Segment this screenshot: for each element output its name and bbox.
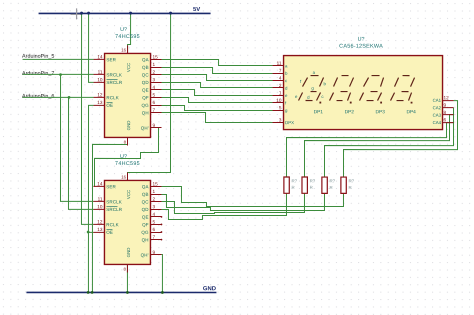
svg-text:2: 2: [152, 197, 155, 202]
svg-text:6: 6: [444, 117, 447, 122]
svg-text:SRCLK: SRCLK: [106, 72, 122, 77]
svg-text:12: 12: [97, 219, 103, 224]
svg-text:CA56-12SEKWA: CA56-12SEKWA: [339, 44, 383, 50]
svg-text:DPX: DPX: [285, 120, 294, 125]
svg-text:U?: U?: [120, 27, 127, 33]
svg-text:7: 7: [153, 108, 156, 113]
svg-text:5V: 5V: [193, 7, 200, 13]
svg-text:5: 5: [152, 219, 155, 224]
svg-text:CA3: CA3: [433, 113, 442, 118]
svg-text:DP1: DP1: [314, 109, 324, 115]
svg-text:4: 4: [153, 85, 156, 90]
svg-text:11: 11: [277, 61, 282, 66]
svg-text:7: 7: [152, 235, 155, 240]
svg-text:10: 10: [97, 204, 103, 209]
svg-text:2: 2: [279, 83, 282, 88]
svg-text:15: 15: [152, 181, 158, 186]
svg-text:GND: GND: [126, 121, 131, 131]
svg-text:GND: GND: [126, 248, 131, 258]
svg-text:5: 5: [279, 105, 282, 110]
svg-text:9: 9: [444, 103, 447, 108]
svg-text:QC: QC: [142, 72, 150, 77]
svg-text:VCC: VCC: [126, 190, 131, 199]
svg-text:1: 1: [153, 62, 156, 67]
svg-text:QH: QH: [142, 110, 149, 115]
svg-text:3: 3: [153, 77, 156, 82]
svg-text:R: R: [310, 185, 313, 190]
svg-text:1: 1: [152, 189, 155, 194]
svg-text:SRCLK: SRCLK: [106, 199, 122, 204]
svg-text:QA: QA: [142, 184, 149, 189]
svg-text:11: 11: [98, 197, 103, 202]
svg-text:CA2: CA2: [433, 105, 442, 110]
svg-text:QF: QF: [142, 222, 149, 227]
svg-text:QF: QF: [142, 95, 149, 100]
svg-text:QD: QD: [142, 207, 150, 212]
svg-text:QE: QE: [142, 88, 149, 93]
svg-text:RCLK: RCLK: [106, 95, 118, 100]
svg-text:CA1: CA1: [433, 98, 442, 103]
svg-text:3: 3: [152, 204, 155, 209]
svg-text:11: 11: [98, 70, 103, 75]
svg-text:QE: QE: [142, 215, 149, 220]
svg-text:74HC595: 74HC595: [115, 34, 140, 40]
svg-text:SRCLR: SRCLR: [106, 207, 122, 212]
svg-text:QB: QB: [142, 192, 149, 197]
svg-text:14: 14: [97, 54, 103, 59]
svg-text:DP4: DP4: [406, 109, 416, 115]
svg-text:U?: U?: [358, 37, 365, 43]
svg-text:VCC: VCC: [126, 63, 131, 72]
svg-text:QH': QH': [141, 126, 149, 131]
svg-text:QH: QH: [142, 237, 149, 242]
svg-text:QD: QD: [142, 80, 150, 85]
svg-text:U?: U?: [120, 154, 127, 160]
svg-text:QH': QH': [141, 253, 149, 258]
svg-text:R?: R?: [310, 178, 316, 183]
svg-text:16: 16: [121, 174, 126, 179]
svg-text:10: 10: [276, 98, 282, 103]
svg-text:QA: QA: [142, 57, 149, 62]
svg-text:6: 6: [153, 100, 156, 105]
svg-text:R?: R?: [291, 178, 297, 183]
svg-text:ArduinoPin_6: ArduinoPin_6: [22, 94, 54, 100]
svg-text:13: 13: [97, 100, 103, 105]
svg-text:OE: OE: [106, 103, 113, 108]
svg-text:15: 15: [153, 54, 159, 59]
svg-text:8: 8: [444, 110, 447, 115]
svg-text:DP3: DP3: [376, 109, 386, 115]
svg-text:9: 9: [153, 123, 156, 128]
svg-text:74HC595: 74HC595: [115, 161, 140, 167]
svg-text:9: 9: [152, 250, 155, 255]
svg-text:R?: R?: [348, 178, 354, 183]
svg-text:1: 1: [279, 90, 282, 95]
svg-text:GND: GND: [203, 286, 216, 292]
svg-text:16: 16: [121, 47, 126, 52]
svg-text:2: 2: [153, 70, 156, 75]
svg-text:OE: OE: [106, 230, 113, 235]
svg-text:DP2: DP2: [345, 109, 355, 115]
svg-text:R?: R?: [329, 178, 335, 183]
svg-text:R: R: [291, 185, 294, 190]
svg-text:12: 12: [97, 92, 103, 97]
svg-text:5: 5: [153, 92, 156, 97]
svg-text:3: 3: [279, 118, 282, 123]
svg-text:7: 7: [279, 68, 282, 73]
svg-text:RCLK: RCLK: [106, 222, 118, 227]
svg-text:CA4: CA4: [433, 120, 442, 125]
svg-text:SER: SER: [106, 184, 116, 189]
svg-text:6: 6: [152, 227, 155, 232]
svg-text:ArduinoPin_5: ArduinoPin_5: [22, 54, 54, 60]
svg-text:QG: QG: [141, 103, 149, 108]
svg-text:R: R: [348, 185, 351, 190]
svg-text:QB: QB: [142, 65, 149, 70]
svg-text:4: 4: [279, 76, 282, 81]
svg-text:12: 12: [444, 95, 450, 100]
svg-text:QC: QC: [142, 199, 150, 204]
svg-text:13: 13: [97, 227, 103, 232]
svg-text:QG: QG: [141, 230, 149, 235]
svg-text:14: 14: [97, 181, 103, 186]
svg-text:4: 4: [152, 212, 155, 217]
svg-text:SER: SER: [106, 57, 116, 62]
svg-text:SRCLR: SRCLR: [106, 80, 122, 85]
svg-text:R: R: [329, 185, 332, 190]
svg-text:10: 10: [97, 77, 103, 82]
